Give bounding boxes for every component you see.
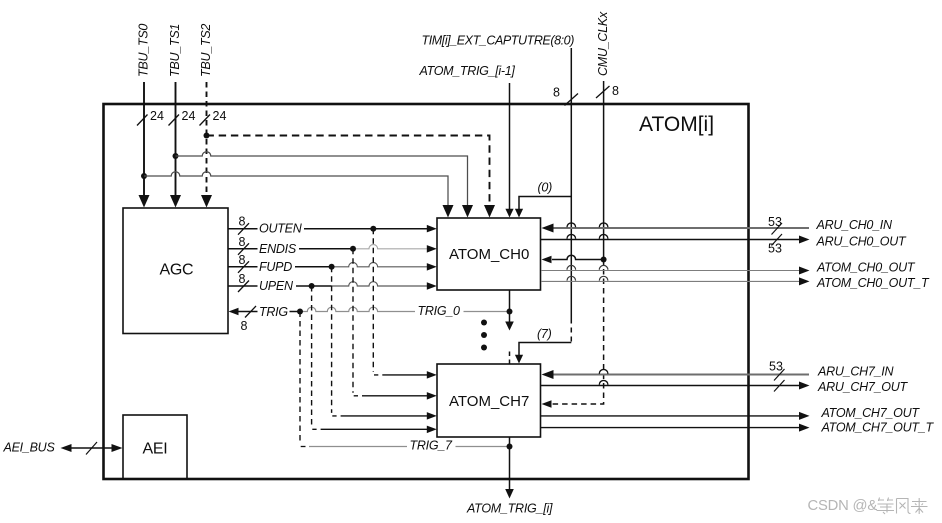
junction dot TRIG_0 <box>507 309 513 315</box>
wire UPEN dashed branch to ATOM_CH7 <box>311 286 313 426</box>
arrow trigger toward next channel <box>505 322 514 331</box>
junction dot OUTEN branch <box>370 226 376 232</box>
svg-text:53: 53 <box>768 215 782 229</box>
svg-text:ARU_CH0_OUT: ARU_CH0_OUT <box>816 235 908 249</box>
svg-text:53: 53 <box>769 360 783 374</box>
wire ATOM_TRIG_[i-1] vertical <box>509 83 511 210</box>
arrow OUTEN into ATOM_CH0 <box>427 225 437 233</box>
svg-text:24: 24 <box>213 109 227 123</box>
bus width slash 8 on OUTEN <box>238 223 249 235</box>
arrow ARU_CH0_OUT <box>799 236 810 244</box>
svg-text:ATOM_CH7_OUT: ATOM_CH7_OUT <box>821 406 921 420</box>
bus width slash 24 on TBU_TS1 <box>169 115 180 126</box>
junction dot CMU clock to ATOM_CH0 <box>601 257 607 263</box>
block ATOM_CH7 <box>437 364 541 437</box>
arrow TBU_TS2 into AGC <box>201 195 212 208</box>
svg-text:8: 8 <box>239 235 246 249</box>
arrow bit (0) into ATOM_CH0 <box>515 209 523 218</box>
bus width slash 8 on TIM wire <box>565 94 579 106</box>
svg-text:8: 8 <box>553 86 560 100</box>
svg-text:24: 24 <box>150 109 164 123</box>
arrow ARU_CH7_OUT <box>799 382 810 390</box>
arrow ATOM_TRIG_[i] <box>505 489 514 499</box>
wire CMU clock into ATOM_CH0 <box>552 255 604 259</box>
svg-text:TBU_TS0: TBU_TS0 <box>137 24 151 77</box>
arrow TBU_TS0 into AGC <box>139 195 150 208</box>
svg-text:TRIG: TRIG <box>259 305 288 319</box>
bus width slash 8 on UPEN <box>238 281 249 293</box>
arrow bit (7) into ATOM_CH7 <box>515 355 523 364</box>
svg-text:8: 8 <box>239 272 246 286</box>
arrow TBU_TS0 into ATOM_CH0 <box>443 205 454 218</box>
junction dot TBU_TS2 branch <box>204 133 210 139</box>
svg-text:ATOM_CH7: ATOM_CH7 <box>449 393 529 410</box>
svg-text:CSDN @&: CSDN @& <box>808 498 878 514</box>
arrow ENDIS into ATOM_CH7 <box>427 392 437 400</box>
svg-text:OUTEN: OUTEN <box>259 222 303 236</box>
junction dot TBU_TS1 branch <box>173 153 179 159</box>
bus width slash 8 on CMU_CLKx <box>596 86 610 98</box>
arrow ARU_CH7_IN into ATOM_CH7 <box>542 370 554 379</box>
wire UPEN from AGC to ATOM_CH0 <box>228 285 332 287</box>
junction dot UPEN branch <box>309 283 315 289</box>
label CMU_CLKx <box>596 11 610 76</box>
arrow clock into ATOM_CH0 <box>542 256 552 263</box>
label UPEN <box>258 280 297 293</box>
arrow UPEN into ATOM_CH0 <box>427 282 437 290</box>
label TBU_TS0 <box>137 24 151 77</box>
svg-text:AGC: AGC <box>160 262 194 279</box>
wire TBU_TS2 dashed route to ATOM_CH0 <box>207 136 490 205</box>
wire ARU_CH0_OUT <box>541 239 800 241</box>
arrow ARU_CH0_IN into ATOM_CH0 <box>542 224 554 233</box>
arrow AEI_BUS into AEI <box>112 444 123 452</box>
wire ARU_CH0_IN <box>552 227 809 229</box>
svg-text:TRIG_7: TRIG_7 <box>410 439 454 453</box>
arrow ATOM_CH7_OUT_T <box>799 424 810 432</box>
svg-text:ATOM[i]: ATOM[i] <box>639 113 714 136</box>
arrow FUPD into ATOM_CH0 <box>427 263 437 271</box>
wire CMU_CLKx dashed to ATOM_CH7 clock <box>549 260 604 405</box>
svg-text:TRIG_0: TRIG_0 <box>418 304 461 318</box>
wire TIM dashed segment above (7) branch <box>570 319 572 343</box>
arrow ATOM_CH0_OUT_T <box>799 277 810 285</box>
svg-text:AEI: AEI <box>143 441 168 458</box>
bus width slash on ARU_CH7_OUT <box>774 380 785 392</box>
svg-text:8: 8 <box>239 215 246 229</box>
svg-text:8: 8 <box>612 84 619 98</box>
svg-text:53: 53 <box>768 242 782 256</box>
arrow ATOM_TRIG_[i-1] into ATOM_CH0 <box>505 209 513 218</box>
arrow AEI_BUS left <box>61 444 72 452</box>
wire FUPD from AGC to ATOM_CH0 <box>228 266 332 268</box>
arrow TRIG into AGC <box>229 308 239 315</box>
svg-text:(0): (0) <box>538 181 553 195</box>
wire TBU_TS1 vertical <box>175 82 177 196</box>
wire ATOM_CH7_OUT <box>541 415 800 417</box>
junction dot FUPD branch <box>329 264 335 270</box>
arrow ATOM_CH0_OUT <box>799 267 810 275</box>
svg-text:ARU_CH7_OUT: ARU_CH7_OUT <box>817 380 909 394</box>
wire ARU_CH7_IN <box>552 374 809 376</box>
wire TBU_TS2 vertical <box>206 82 208 196</box>
bus width slash 53 on ARU_CH0_OUT <box>772 234 783 246</box>
wire CMU_CLKx vertical <box>603 81 605 260</box>
svg-text:TIM[i]_EXT_CAPTUTRE(8:0): TIM[i]_EXT_CAPTUTRE(8:0) <box>422 34 575 48</box>
arrow TBU_TS1 into AGC <box>170 195 181 208</box>
bus width slash 24 on TBU_TS2 <box>200 115 211 126</box>
arrow CMU clock into ATOM_CH7 <box>542 400 552 408</box>
wire ATOM_CH0_OUT_T <box>541 280 800 282</box>
wire ATOM_CH0_OUT <box>541 270 800 272</box>
svg-text:ATOM_CH0_OUT: ATOM_CH0_OUT <box>816 261 916 275</box>
wire TIM bit (7) branch to ATOM_CH7 <box>519 343 571 356</box>
arrow ENDIS into ATOM_CH0 <box>427 245 437 253</box>
block AEI <box>123 415 187 479</box>
bus width slash 8 on ENDIS <box>238 243 249 255</box>
svg-text:UPEN: UPEN <box>259 279 294 293</box>
wire TBU_TS0 vertical <box>143 82 145 196</box>
wire TRIG into AGC <box>237 311 301 313</box>
svg-text:ATOM_CH7_OUT_T: ATOM_CH7_OUT_T <box>821 421 935 435</box>
svg-text:ATOM_CH0: ATOM_CH0 <box>449 246 529 263</box>
wire ATOM_CH7_OUT_T <box>541 427 800 429</box>
label OUTEN <box>258 222 305 235</box>
wire TRIG_0 from ATOM_CH0 to AGC <box>300 307 510 311</box>
svg-text:8: 8 <box>239 253 246 267</box>
arrow ATOM_CH7_OUT <box>799 412 810 420</box>
junction dot TBU_TS0 branch <box>141 173 147 179</box>
svg-text:TBU_TS1: TBU_TS1 <box>168 24 182 77</box>
wire OUTEN dashed branch to ATOM_CH7 <box>372 229 374 372</box>
wire TIM bit (0) branch to ATOM_CH0 <box>519 197 571 210</box>
wire ENDIS from AGC to ATOM_CH0 <box>228 248 353 250</box>
wire TRIG_7 dashed vertical <box>299 312 301 444</box>
bus width slash 53 on ARU_CH7_IN <box>774 369 785 381</box>
svg-text:ATOM_TRIG_[i-1]: ATOM_TRIG_[i-1] <box>419 64 516 78</box>
wire ARU_CH7_OUT <box>541 385 800 387</box>
svg-text:ATOM_TRIG_[i]: ATOM_TRIG_[i] <box>466 502 553 516</box>
label TRIG <box>258 305 290 318</box>
arrow UPEN into ATOM_CH7 <box>427 426 437 434</box>
ellipsis channel continuation dots <box>481 320 487 351</box>
wire TIM[i]_EXT_CAPTUTRE vertical <box>570 48 572 319</box>
arrow OUTEN into ATOM_CH7 <box>427 371 437 379</box>
label TRIG_7 <box>407 440 456 453</box>
junction dot TRIG branch <box>297 309 303 315</box>
junction dot ENDIS branch <box>350 246 356 252</box>
bus width slash 53 on ARU_CH0_IN <box>772 223 783 235</box>
svg-text:ARU_CH0_IN: ARU_CH0_IN <box>816 218 894 232</box>
block ATOM_CH0 <box>437 218 541 290</box>
label FUPD <box>258 260 296 273</box>
wire AEI_BUS bidirectional <box>68 447 116 449</box>
svg-text:TBU_TS2: TBU_TS2 <box>199 24 213 77</box>
label TRIG_0 <box>415 305 464 318</box>
wire FUPD dashed branch to ATOM_CH7 <box>331 267 333 413</box>
label TBU_TS2 <box>199 24 213 77</box>
svg-text:8: 8 <box>241 319 248 333</box>
junction dot TRIG_7 <box>507 444 513 450</box>
watermark hanzi strokes <box>877 498 928 515</box>
bus width slash 8 on TRIG <box>245 306 256 318</box>
svg-text:CMU_CLKx: CMU_CLKx <box>596 11 610 76</box>
arrow TBU_TS1 into ATOM_CH0 <box>462 205 473 218</box>
bus width slash 24 on TBU_TS0 <box>137 115 148 126</box>
bus width slash on AEI_BUS <box>86 442 97 455</box>
svg-text:(7): (7) <box>537 327 552 341</box>
wire ATOM_CH0 trigger down <box>509 290 511 322</box>
wire OUTEN from AGC to ATOM_CH0 <box>228 228 430 230</box>
wire TBU_TS1 route to ATOM_CH0 <box>176 152 468 206</box>
svg-text:24: 24 <box>182 109 196 123</box>
svg-text:AEI_BUS: AEI_BUS <box>3 441 56 455</box>
wire dashed stub into ATOM_CH7 top <box>509 352 511 365</box>
label ENDIS <box>258 242 300 255</box>
module boundary box ATOM[i] <box>104 104 749 479</box>
wire TRIG_7 horizontal to ATOM_CH7 <box>301 446 306 448</box>
svg-text:FUPD: FUPD <box>259 260 292 274</box>
svg-text:ENDIS: ENDIS <box>259 242 297 256</box>
svg-text:ATOM_CH0_OUT_T: ATOM_CH0_OUT_T <box>816 276 930 290</box>
bus width slash 8 on FUPD <box>238 261 249 273</box>
block AGC <box>123 208 228 334</box>
svg-text:ARU_CH7_IN: ARU_CH7_IN <box>817 365 895 379</box>
label TBU_TS1 <box>168 24 182 77</box>
arrow TBU_TS2 into ATOM_CH0 <box>484 205 495 218</box>
arrow FUPD into ATOM_CH7 <box>427 412 437 420</box>
wire ENDIS dashed branch to ATOM_CH7 <box>352 249 354 393</box>
wire TBU_TS0 route to ATOM_CH0 <box>144 172 448 206</box>
wire ATOM_TRIG_[i] out <box>509 437 511 490</box>
